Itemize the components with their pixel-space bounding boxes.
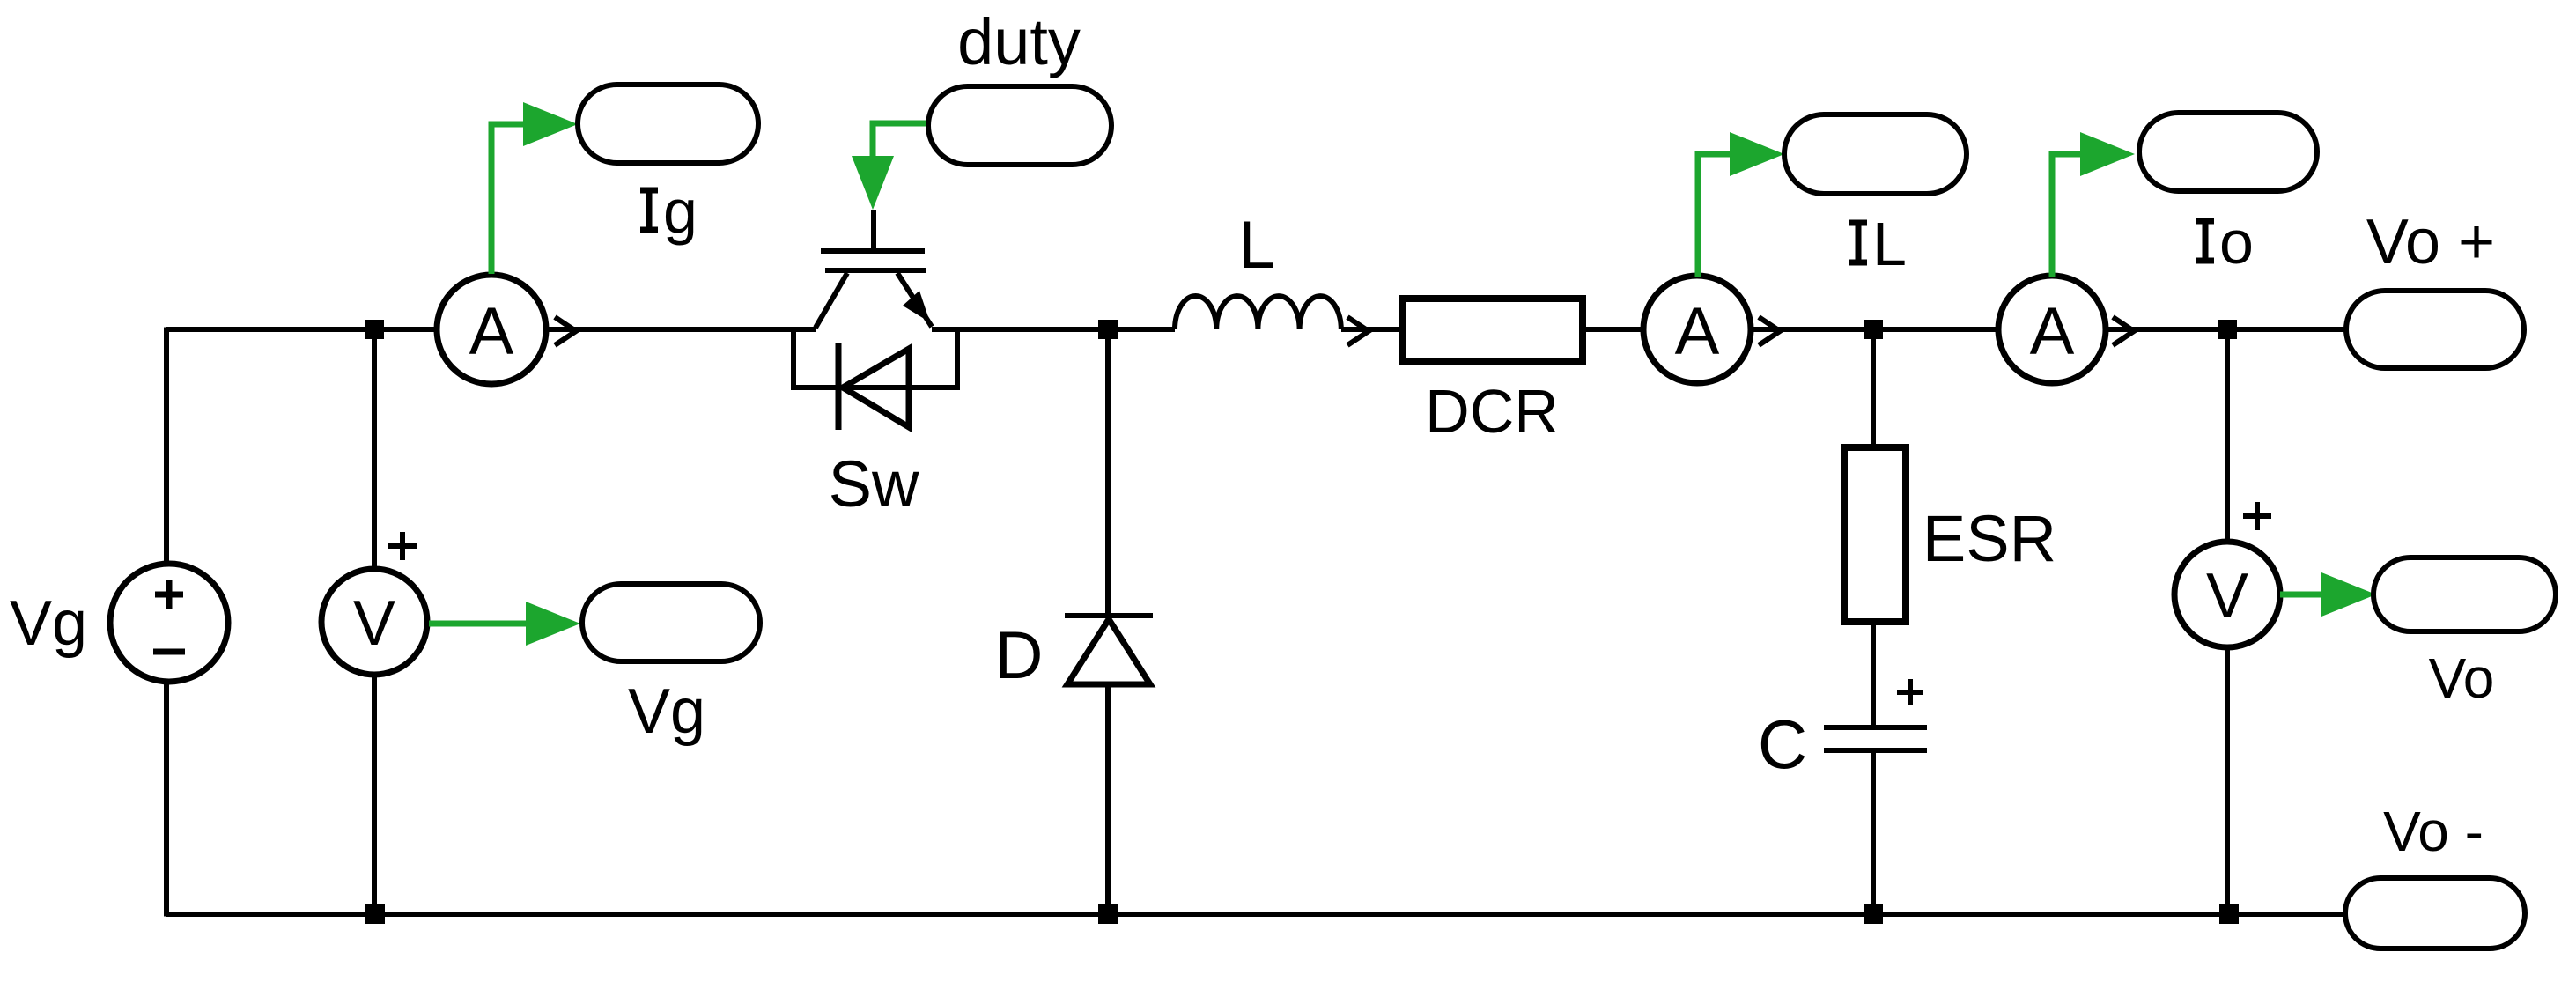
svg-text:duty: duty [957,5,1081,78]
port tag Ig [578,85,758,163]
wire ESR vertical upper [1871,329,1876,447]
wire diode D vertical lower [1105,684,1111,914]
node junction at diode D [1098,320,1118,339]
svg-text:A: A [469,294,514,369]
svg-text:o: o [2219,208,2254,277]
ammeter A3 [1998,276,2106,383]
voltmeter V1 [321,569,427,675]
bottom bus wire [166,912,2345,917]
svg-text:ESR: ESR [1923,502,2056,575]
wire V1 vertical lower [372,674,377,914]
voltmeter V2 [2174,542,2280,647]
wire top-left horizontal [166,327,437,332]
port tag duty [928,86,1111,165]
svg-text:V: V [353,588,395,659]
label IL [1849,210,1907,278]
wire A3 to Vo+ tag [2106,327,2346,332]
wire ESR to C [1871,622,1876,727]
resistor DCR [1403,299,1583,361]
label Sw [829,447,919,521]
svg-text:DCR: DCR [1425,377,1559,446]
node junction bottom at C [1864,904,1883,924]
plus sign capacitor [1897,679,1923,705]
wire L to DCR [1341,327,1403,332]
wire A2 to A3 [1751,327,1998,332]
wire left vertical upper [164,328,169,565]
arrow after A1 [555,317,576,345]
label Vo [2429,646,2495,710]
svg-text:Vg: Vg [10,588,87,659]
plus sign V2 [2243,502,2271,530]
wire V2 vertical lower [2225,647,2230,914]
wire switch to inductor [932,327,1175,332]
wire DCR to A2 [1583,327,1643,332]
label ESR [1923,502,2056,575]
svg-text:C: C [1758,705,1807,783]
wire C to bottom bus [1871,750,1876,914]
label Ig [640,177,698,246]
capacitor C [1824,727,1927,750]
svg-text:V: V [2206,561,2248,631]
voltage source Vg [110,564,228,682]
svg-text:Vo: Vo [2429,646,2495,710]
ammeter A2 [1643,276,1751,383]
ammeter A1 [437,275,546,384]
label C [1758,705,1807,783]
svg-text:A: A [1675,294,1720,369]
svg-text:Vg: Vg [628,676,705,747]
arrow after A3 [2113,317,2134,345]
arrow after A2 [1759,317,1780,345]
svg-text:g: g [663,177,698,246]
wire A1 to switch [546,327,816,332]
wire left vertical lower [164,682,169,917]
diode D [1065,616,1153,684]
wire V1 vertical upper [372,329,377,570]
port tag Vo+ [2346,291,2524,368]
svg-text:Sw: Sw [829,447,919,521]
arrow after L [1347,317,1369,345]
label D [995,618,1044,693]
label Vo + [2366,207,2495,277]
svg-text:A: A [2030,294,2075,369]
node junction at ESR [1864,320,1883,339]
resistor ESR [1844,447,1906,622]
node junction at V2 [2218,320,2237,339]
inductor L [1175,296,1341,329]
label Vo - [2383,800,2484,863]
port tag Vo- [2345,878,2525,949]
node junction bottom at D [1098,904,1118,924]
green signal wire A3 to Io tag [2052,132,2135,277]
green signal wire A1 to Ig tag [491,102,578,274]
svg-text:L: L [1238,208,1275,283]
node junction top at V meter [365,320,384,339]
wire V2 vertical upper [2225,329,2230,543]
label DCR [1425,377,1559,446]
green signal wire V1 to Vg tag [429,602,580,646]
svg-text:Vo +: Vo + [2366,207,2495,277]
node junction bottom at V1 [365,904,385,924]
label Vg (source) [10,588,87,659]
svg-text:Vo -: Vo - [2383,800,2484,863]
green signal wire duty tag to Sw gate [852,123,927,210]
anti-parallel diode of Sw [793,327,957,430]
wire diode D vertical upper [1105,329,1111,616]
transistor Sw (IGBT) [816,210,932,328]
green signal wire V2 to Vo tag [2280,572,2376,617]
svg-text:D: D [995,618,1044,693]
node junction bottom at V2 [2219,904,2239,924]
port tag Vg [582,584,760,661]
svg-text:L: L [1872,210,1907,278]
label L [1238,208,1275,283]
port tag IL [1784,114,1967,194]
label duty [957,5,1081,78]
label Io [2196,208,2254,277]
port tag Vo [2373,557,2556,631]
plus sign V1 [388,532,417,560]
green signal wire A2 to IL tag [1698,132,1784,277]
label Vg (tag) [628,676,705,747]
port tag Io [2139,113,2317,191]
